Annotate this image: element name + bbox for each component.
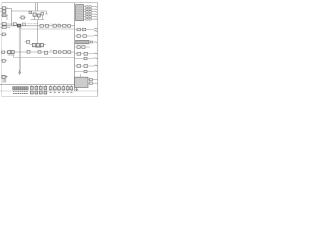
ground at bus bottom — [18, 70, 21, 74]
wire top horizontal y11 — [12, 10, 47, 12]
right row y53.8 — [75, 53, 95, 55]
right row y58.6 — [75, 58, 95, 60]
vertical divider x74.5 — [74, 3, 76, 91]
pin flags top-right — [94, 7, 97, 20]
left block row B — [2, 51, 5, 54]
cap C5 — [13, 23, 16, 26]
capacitor C2 — [21, 16, 24, 19]
pad bar bottom-left — [13, 87, 29, 90]
right row y29.5 — [75, 29, 95, 31]
bottom mid component stacks — [30, 86, 46, 94]
relay K1 cluster — [29, 11, 32, 13]
junction blob — [17, 24, 20, 27]
sheet border top — [2, 2, 98, 4]
bus B y52 — [2, 51, 75, 53]
bottom cluster of bus A — [32, 43, 35, 46]
right row y66 — [75, 65, 95, 67]
bottom bus y84.7 — [0, 84, 75, 86]
right row y71.5 — [75, 71, 95, 73]
bottom cap row center — [51, 85, 72, 87]
tick labels above bus A right — [51, 23, 60, 25]
connector J1 (gray box top-right) — [76, 5, 84, 21]
inline parts on bus B — [27, 50, 30, 53]
sheet border right — [97, 3, 99, 97]
wire stub right of relay cluster — [45, 11, 47, 14]
wires filters to pins — [91, 7, 94, 20]
bus A2 y29 — [20, 28, 75, 30]
faint line y91 — [0, 90, 98, 92]
small box x27 y41 — [27, 40, 30, 43]
hatch rows under pad bar — [13, 90, 28, 92]
wire top-left horizontal — [0, 8, 12, 10]
bus B2 y57.6 — [14, 57, 75, 59]
wires J1 to filters — [84, 7, 87, 20]
bottom-right module — [75, 77, 88, 87]
left block row A — [2, 23, 6, 26]
filter column — [86, 6, 91, 20]
wire vertical x11.5 — [11, 9, 13, 26]
transformer T1 — [2, 7, 5, 10]
diode D1 — [2, 14, 6, 17]
bus A y25.8 — [2, 25, 75, 27]
wire fuse verticals to top border — [35, 3, 37, 11]
small box right of bus — [23, 23, 26, 26]
inline parts on bus A — [28, 23, 38, 25]
vertical x37.6 — [37, 20, 39, 44]
wire cluster bottom — [31, 15, 45, 20]
right row y47 — [75, 46, 91, 48]
sheet border bottom — [2, 96, 98, 98]
sheet border left — [0, 3, 2, 97]
bottom-left transformer cluster — [2, 75, 5, 78]
right row y36 — [75, 35, 95, 37]
diode left — [2, 59, 5, 62]
vertical bus x19.6 — [19, 24, 20, 74]
gray bar right (module) — [76, 40, 89, 43]
resistor left mid — [2, 33, 5, 36]
